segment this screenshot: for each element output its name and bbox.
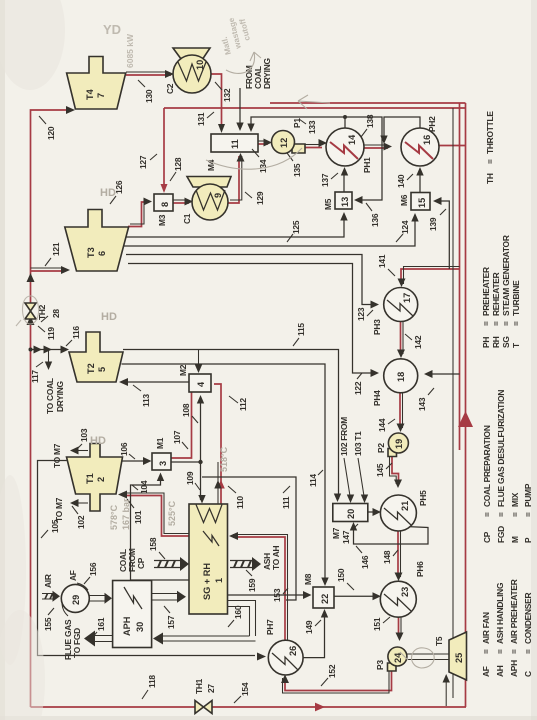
mixer M8 (22) <box>313 587 334 608</box>
arrowhead 101 into T1 bottom <box>118 491 127 499</box>
arrowhead: big red arrow on bottom frame <box>458 411 473 427</box>
coal input hatched arrow into SG <box>154 561 182 568</box>
wire 114: T2 extraction down to M8 (black) <box>122 364 326 583</box>
wire: bottom frame second red stroke <box>459 103 461 450</box>
arrowhead 120 into T4 <box>66 106 75 114</box>
svg-text:PH2: PH2 <box>427 116 437 132</box>
svg-text:125: 125 <box>291 220 301 234</box>
node: junction dot bus/T2 branch <box>29 348 33 352</box>
svg-text:HD: HD <box>100 187 116 199</box>
mixer M1 (3) <box>152 453 171 470</box>
svg-text:FLUE GAS DESULFURIZATION: FLUE GAS DESULFURIZATION <box>496 390 506 507</box>
svg-text:=: = <box>481 321 491 326</box>
svg-text:134: 134 <box>258 159 268 173</box>
svg-text:26: 26 <box>288 646 298 656</box>
svg-text:117: 117 <box>30 370 40 383</box>
svg-text:TO AH: TO AH <box>271 545 281 570</box>
preheater PH7 (26) <box>268 640 303 675</box>
svg-text:124: 124 <box>400 220 410 234</box>
arrowhead 142 into PH4 right <box>397 350 405 359</box>
svg-text:143: 143 <box>417 397 427 411</box>
svg-text:123: 123 <box>356 307 366 321</box>
svg-text:T5: T5 <box>434 636 444 646</box>
wire 136: branch to M5 (black) <box>345 117 382 200</box>
svg-text:161: 161 <box>96 617 106 631</box>
arrowhead 108 into M2 left <box>197 395 204 404</box>
svg-text:127: 127 <box>138 155 148 169</box>
wire 137: M5 to PH1 (black) <box>343 170 345 192</box>
arrowhead 121 into T3 <box>61 266 70 274</box>
svg-text:22: 22 <box>320 594 330 604</box>
svg-text:M2: M2 <box>178 364 188 376</box>
wire 105/118: T1 corner to PH7 (black) <box>38 461 256 656</box>
pencil curve near C2 <box>226 52 261 73</box>
svg-text:=: = <box>495 649 505 654</box>
svg-text:T4: T4 <box>85 88 95 100</box>
svg-text:132: 132 <box>222 88 232 102</box>
svg-text:136: 136 <box>370 213 380 227</box>
wire: right frame line (red) <box>164 107 466 109</box>
svg-text:114: 114 <box>308 474 318 487</box>
svg-text:6085 kW: 6085 kW <box>125 33 135 68</box>
svg-text:PH4: PH4 <box>372 390 382 406</box>
svg-text:153: 153 <box>272 588 282 602</box>
wire 103: leader from T1 label to M7 (black) <box>358 458 364 500</box>
svg-text:P3: P3 <box>375 660 385 670</box>
air fan AF (29) <box>61 584 89 612</box>
air input hatched arrow into AF <box>42 594 54 600</box>
svg-text:APH: APH <box>122 616 132 636</box>
svg-text:142: 142 <box>413 335 423 349</box>
svg-text:M3: M3 <box>157 214 167 226</box>
svg-text:AF: AF <box>481 666 491 677</box>
arrowhead 145 into PH5 right <box>394 480 402 489</box>
mixer M3 (8) <box>154 194 173 211</box>
wire: from coal drying into M4 (black) <box>239 88 241 128</box>
svg-text:TO COAL: TO COAL <box>45 378 55 414</box>
svg-text:148: 148 <box>382 550 392 564</box>
condenser C2 (10) <box>173 48 210 63</box>
turbine T3 (6) <box>65 210 129 272</box>
svg-text:110: 110 <box>235 496 245 509</box>
arrowhead into PH7 top <box>257 653 266 661</box>
wire 113: M2 up into T2 (black) <box>124 381 189 383</box>
wire 129: C1 to M4 (red+black) <box>228 156 239 203</box>
pencil circle around TH2 <box>16 296 39 326</box>
pump P1 (12) <box>292 144 305 153</box>
shaft: P3 to T5 (double line) <box>406 654 449 660</box>
svg-text:130: 130 <box>144 89 154 103</box>
preheater PH3 (17) <box>384 288 418 322</box>
wire 106: T1 to M1 (black) <box>123 460 149 462</box>
svg-text:M5: M5 <box>323 198 333 210</box>
arrowhead 148 into PH6 right <box>395 573 403 582</box>
svg-text:THROTTLE: THROTTLE <box>485 111 495 154</box>
arrowhead 151 into P3 <box>396 633 404 642</box>
wire 145: P2 to PH5 (red+black) <box>392 453 399 484</box>
svg-text:119: 119 <box>46 327 56 340</box>
arrowhead 152 into PH7 left <box>281 675 289 684</box>
svg-text:102 FROM: 102 FROM <box>339 417 349 456</box>
svg-text:109: 109 <box>185 471 195 485</box>
svg-text:107: 107 <box>172 430 182 444</box>
svg-text:9: 9 <box>213 193 223 198</box>
svg-text:C1: C1 <box>182 213 192 224</box>
wire 148: PH5 to PH6 (red+black) <box>397 531 399 577</box>
svg-text:=: = <box>510 512 520 517</box>
wire 102: leader from T1 label to M7 (black) <box>344 458 350 500</box>
svg-text:M6: M6 <box>399 194 409 206</box>
throttle valve TH2 (28) on bus <box>25 311 36 319</box>
wire 132: C2 to M4 (red) <box>211 74 222 130</box>
wire: PH2 to bottom frame (red) <box>439 145 466 147</box>
arrowhead 153 into SG bottom <box>229 532 238 540</box>
svg-text:128: 128 <box>173 157 183 171</box>
svg-text:30: 30 <box>135 622 145 632</box>
wire: steam line into T5 (black) <box>445 678 447 706</box>
arrowhead: bus flow arrow at x=441 <box>27 273 35 282</box>
wire 107: M1 to M2 (red) <box>171 392 192 458</box>
svg-text:11: 11 <box>230 139 240 149</box>
svg-text:SG + RH: SG + RH <box>202 563 212 600</box>
svg-text:150: 150 <box>336 568 346 582</box>
svg-text:159: 159 <box>247 578 257 592</box>
svg-text:AIR FAN: AIR FAN <box>481 612 491 644</box>
wire 112: SG to M2 (red) <box>214 384 221 504</box>
svg-text:578°C: 578°C <box>109 504 119 530</box>
svg-text:525°C: 525°C <box>167 500 177 526</box>
svg-text:156: 156 <box>88 562 98 576</box>
wire: bottom frame feedwater line (red) <box>465 103 467 707</box>
svg-text:TO M7: TO M7 <box>52 443 62 468</box>
wire 138: PH2 drain loop (black) <box>384 117 420 141</box>
svg-text:155: 155 <box>43 617 53 631</box>
svg-text:12: 12 <box>279 138 289 148</box>
svg-text:PH6: PH6 <box>415 561 425 577</box>
svg-text:TH: TH <box>485 173 495 184</box>
preheater PH1 (14) <box>326 128 364 166</box>
svg-text:=: = <box>501 321 511 326</box>
wire: TO M7 arrow from T1 left stem <box>74 502 88 504</box>
svg-text:15: 15 <box>417 198 427 208</box>
mixer M2 (4) <box>189 374 211 392</box>
svg-text:133: 133 <box>307 120 317 134</box>
svg-text:518°C: 518°C <box>219 446 229 472</box>
svg-text:DRYING: DRYING <box>55 381 65 412</box>
svg-text:T3: T3 <box>86 247 96 258</box>
wire: right frame second red stroke <box>270 102 466 104</box>
svg-text:29: 29 <box>71 595 81 605</box>
wire 151: PH6 to P3 (red+black) <box>398 617 400 637</box>
svg-text:6: 6 <box>97 251 107 256</box>
svg-text:PH5: PH5 <box>418 490 428 506</box>
svg-text:135: 135 <box>292 163 302 177</box>
turbine T2 (5) <box>69 332 123 382</box>
wire 124: T3 extraction to M6 (black) <box>124 216 415 246</box>
wire: branch T2 line into M2 right <box>198 350 200 371</box>
svg-text:102: 102 <box>76 515 86 529</box>
ash output hatched arrow from SG <box>230 561 253 568</box>
wire 141: bottom frame riser to PH3 (red+black) <box>401 269 460 284</box>
svg-text:104: 104 <box>139 480 149 494</box>
svg-text:APH: APH <box>509 660 519 677</box>
preheater PH4 (18) <box>384 359 418 393</box>
pencil loop around M4 region <box>206 148 302 169</box>
arrowhead 141 into PH3 right <box>398 279 406 288</box>
svg-text:MIX: MIX <box>510 492 520 507</box>
svg-text:20: 20 <box>346 509 356 519</box>
svg-text:149: 149 <box>304 620 314 634</box>
svg-text:3: 3 <box>158 461 168 466</box>
arrowhead: bus flow arrow at x=398 <box>27 316 35 325</box>
svg-text:28: 28 <box>51 309 61 318</box>
svg-text:M1: M1 <box>155 437 165 449</box>
svg-text:2: 2 <box>96 477 106 482</box>
svg-text:16: 16 <box>422 135 432 145</box>
svg-text:PH: PH <box>481 337 491 348</box>
svg-text:103 T1: 103 T1 <box>353 431 363 456</box>
wire 150: M8 to PH6 (black) <box>334 595 377 597</box>
svg-text:14: 14 <box>347 134 357 145</box>
preheater PH5 (21) <box>380 495 416 531</box>
svg-text:129: 129 <box>255 191 265 205</box>
wire 104: SG to M1 (black) <box>131 476 190 580</box>
svg-text:19: 19 <box>394 439 404 449</box>
svg-text:YD: YD <box>103 22 121 37</box>
svg-text:=: = <box>482 512 492 517</box>
mixer M6 (15) <box>411 193 430 211</box>
wire: main steam bus 119/120 (red, top) <box>31 110 73 707</box>
pump P3 (24) <box>388 663 397 671</box>
wire 135: P1 to PH1 (red+black) <box>305 147 322 149</box>
wire 111: feedwater branch up (black) <box>202 477 296 600</box>
flue gas duct APH to FGD (double line with big arrow) <box>92 636 113 642</box>
air duct AF to APH <box>89 596 107 602</box>
turbine T5 (25) <box>449 632 467 680</box>
svg-text:23: 23 <box>400 587 410 597</box>
svg-text:151: 151 <box>372 617 382 631</box>
wire 134: M4 to P1 (red+black) <box>258 143 268 145</box>
svg-text:118: 118 <box>147 675 157 688</box>
svg-text:146: 146 <box>360 555 370 569</box>
wire: SG to M8 top (black) <box>227 594 307 596</box>
svg-text:P1: P1 <box>292 118 302 128</box>
wire 142: PH3 to PH4 (red+black) <box>400 322 402 354</box>
svg-text:HD: HD <box>101 311 117 323</box>
paper edge shading <box>0 0 5 720</box>
arrowhead 112 on line <box>217 480 225 489</box>
svg-text:101: 101 <box>133 510 143 524</box>
wire 115: T2 exhaust down to M7 (black) <box>123 350 339 500</box>
wire 126: T3 to M3 (red+black) <box>128 202 146 227</box>
svg-text:HD: HD <box>90 435 106 447</box>
svg-text:137: 137 <box>320 173 330 187</box>
pencil arrow on right frame <box>298 95 330 109</box>
svg-text:144: 144 <box>377 418 387 432</box>
svg-text:103: 103 <box>79 428 89 442</box>
svg-text:PH1: PH1 <box>362 157 372 173</box>
svg-text:P2: P2 <box>376 443 386 453</box>
svg-text:DRYING: DRYING <box>262 58 272 89</box>
wire 130: T4 to C2 (red+black) <box>126 74 171 76</box>
throttle valve TH1 (27) on left frame <box>195 701 204 714</box>
svg-text:=: = <box>481 649 491 654</box>
arrowhead 134 into P1 <box>264 139 273 147</box>
wire 121: bus drop to T3 (red+black) <box>31 270 65 272</box>
preheated air APH to SG (double line with arrow) <box>152 594 180 601</box>
steam generator SG+RH (1) <box>189 504 228 614</box>
mixer M5 (13) <box>335 192 352 209</box>
air preheater APH (30) <box>113 581 152 648</box>
svg-text:131: 131 <box>196 112 206 126</box>
svg-text:25: 25 <box>454 653 464 663</box>
svg-text:TURBINE: TURBINE <box>511 280 521 316</box>
wire 138a: PH1 to PH2 (red+black) <box>364 147 388 149</box>
svg-text:PH7: PH7 <box>265 619 275 635</box>
svg-text:C2: C2 <box>165 83 175 94</box>
wire 125: T3 extraction to M5 (black) <box>122 215 344 237</box>
svg-text:141: 141 <box>377 254 387 268</box>
wire: M7 to PH5 (black) <box>368 511 377 513</box>
preheater PH6 (23) <box>380 581 416 617</box>
turbine T1 (2) <box>67 444 123 512</box>
svg-text:=: = <box>485 159 495 164</box>
arrowhead into PH2 top <box>384 143 393 151</box>
svg-text:10: 10 <box>195 60 205 70</box>
svg-text:27: 27 <box>206 684 216 693</box>
wire 128: M3 to C1 (red+black) <box>173 202 189 204</box>
svg-text:160: 160 <box>233 605 243 619</box>
svg-text:AF: AF <box>68 570 78 581</box>
wire 123: T3 extraction to PH3 (black) <box>126 255 374 305</box>
wire: TO M7 arrow from T1 right stem <box>74 450 88 452</box>
arrowhead 129 into M4 left <box>237 153 245 162</box>
turbine T4 (7) <box>67 57 126 110</box>
svg-text:M: M <box>510 536 520 543</box>
svg-text:=: = <box>511 321 521 326</box>
flue gas duct SG to APH (double line with arrow) <box>227 601 256 637</box>
wire 143: bottom frame riser to PH4 (black) <box>428 373 460 375</box>
wire 146/147: PH5 drain to M7 (black) <box>354 525 429 544</box>
svg-text:=: = <box>509 649 519 654</box>
wire 108/110: junction line M1-M2-SG (black) <box>171 398 201 500</box>
svg-text:TO M7: TO M7 <box>54 497 64 522</box>
svg-text:RH: RH <box>491 336 501 348</box>
wire 122: T3 extraction to PH4 (black) <box>128 264 374 374</box>
svg-text:18: 18 <box>396 372 406 382</box>
svg-text:CP: CP <box>136 557 146 569</box>
svg-text:AIR PREHEATER: AIR PREHEATER <box>509 579 519 644</box>
wire 149: PH7 to M8 (black) <box>303 612 325 658</box>
svg-text:167 bar: 167 bar <box>121 498 131 530</box>
svg-text:=: = <box>491 321 501 326</box>
pump P2 (19) <box>388 449 397 457</box>
svg-text:108: 108 <box>181 403 191 417</box>
wire 133: PH1 drain to M4 (black) <box>251 117 345 128</box>
wire 110 arrow (black upward on SG-M2 black line) <box>214 480 221 489</box>
wire 152: P3 up-left riser to PH7 (red+black) <box>285 670 392 691</box>
arrowhead 130 into C2 <box>165 70 174 78</box>
arrowhead 135 into PH1 <box>319 139 328 147</box>
svg-text:COAL PREPARATION: COAL PREPARATION <box>482 425 492 507</box>
svg-text:T1: T1 <box>85 473 95 484</box>
svg-text:AIR: AIR <box>43 574 53 588</box>
svg-text:21: 21 <box>400 501 410 511</box>
svg-text:PH3: PH3 <box>372 319 382 335</box>
svg-text:120: 120 <box>46 126 56 140</box>
wire 127: right frame to M3 (red) <box>163 108 165 190</box>
svg-text:122: 122 <box>353 381 363 395</box>
svg-text:PREHEATER: PREHEATER <box>481 267 491 316</box>
arrowhead 109 into SG reheater <box>198 495 205 504</box>
svg-text:139: 139 <box>428 217 438 231</box>
condenser C1 (9) <box>187 177 231 188</box>
wire 139: bottom line riser into M6 (black) <box>437 201 449 269</box>
svg-text:145: 145 <box>375 463 385 477</box>
wire 153: PH7 to SG feedwater riser (red+black) <box>233 537 285 640</box>
svg-text:113: 113 <box>141 394 151 407</box>
arrowhead 126 into M3 top <box>144 198 153 206</box>
svg-text:4: 4 <box>196 381 206 387</box>
svg-text:AH: AH <box>495 665 505 677</box>
svg-text:121: 121 <box>51 242 61 256</box>
svg-text:T2: T2 <box>86 363 96 374</box>
svg-text:STEAM GENERATOR: STEAM GENERATOR <box>501 235 511 316</box>
svg-text:TH1: TH1 <box>194 678 204 694</box>
svg-text:112: 112 <box>238 398 248 411</box>
svg-text:154: 154 <box>240 682 250 696</box>
svg-text:152: 152 <box>327 664 337 678</box>
svg-text:CP: CP <box>482 531 492 543</box>
wire: left frame line 118/154 (red, with gap for TH1) <box>31 706 467 708</box>
svg-text:116: 116 <box>71 326 81 339</box>
wire 117: branch to coal drying <box>48 350 50 367</box>
wire 144: PH4 to P2 (red+black) <box>399 393 401 428</box>
arrowhead 128 into C1 <box>185 198 194 206</box>
pencil loop at T5 shaft <box>400 648 434 668</box>
svg-text:106: 106 <box>119 442 129 456</box>
wire 116: bus drop past T2 with coal branch (black) <box>31 349 67 351</box>
svg-text:138: 138 <box>365 114 375 128</box>
arrowhead 132 into M4 <box>218 124 225 133</box>
svg-text:5: 5 <box>97 367 107 372</box>
mixer M4 (11) <box>211 134 258 152</box>
arrowhead 127 into M3 <box>161 184 168 193</box>
svg-text:=: = <box>496 512 506 517</box>
svg-text:1: 1 <box>214 578 224 583</box>
mixer M7 (20) <box>333 504 368 522</box>
svg-text:REHEATER: REHEATER <box>491 272 501 316</box>
svg-text:140: 140 <box>396 174 406 188</box>
wire: black bottom frame <box>452 108 454 698</box>
svg-text:7: 7 <box>96 93 106 98</box>
svg-text:17: 17 <box>402 293 412 303</box>
svg-text:ASH HANDLING: ASH HANDLING <box>495 583 505 644</box>
svg-text:FGD: FGD <box>496 526 506 543</box>
arrowhead: left frame downward arrow at y=320 <box>315 703 325 712</box>
wire 101: SG to T1 main steam (red+black) <box>122 496 203 537</box>
svg-text:157: 157 <box>166 615 176 629</box>
arrowhead 144 into P2 <box>397 424 405 433</box>
svg-text:147: 147 <box>341 530 351 544</box>
svg-text:SG: SG <box>501 336 511 348</box>
wire 140: M6 to PH2 (black) <box>419 170 421 193</box>
svg-text:115: 115 <box>296 323 306 336</box>
preheater PH2 (16) <box>401 128 439 166</box>
svg-text:13: 13 <box>340 197 350 207</box>
svg-text:158: 158 <box>148 537 158 551</box>
svg-text:M8: M8 <box>303 573 313 585</box>
